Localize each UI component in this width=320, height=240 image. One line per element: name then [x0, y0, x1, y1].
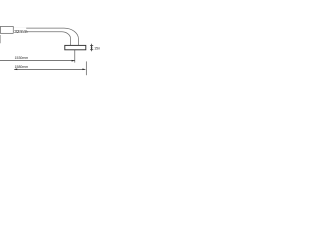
dimension line 1 right arrow [72, 60, 75, 62]
left end cap box [0, 27, 13, 34]
32mm label background [14, 28, 27, 34]
vertical dim line [91, 44, 93, 52]
dimension line 1 [0, 60, 75, 62]
svg-text:32mm: 32mm [14, 29, 27, 35]
tube top line with outer elbow curve [13, 28, 78, 45]
wall plate box [65, 45, 86, 49]
extension line 2 [85, 61, 87, 75]
dimension line 2 [14, 68, 85, 70]
vertical dim top arrow [91, 46, 93, 48]
extension line 1 [74, 50, 76, 63]
left edge tick line [0, 35, 1, 43]
dimension line 2 left arrow [14, 69, 17, 71]
vertical dim bottom arrow [91, 48, 93, 50]
dimension line 2 right arrow [82, 69, 85, 71]
vertical dim top tick [90, 44, 93, 46]
vertical dim bottom tick [90, 49, 93, 51]
svg-text:1530mm: 1530mm [15, 56, 29, 60]
svg-text:15mm: 15mm [94, 46, 100, 50]
tube bottom line with inner elbow curve [13, 32, 70, 45]
svg-text:1580mm: 1580mm [15, 65, 29, 69]
